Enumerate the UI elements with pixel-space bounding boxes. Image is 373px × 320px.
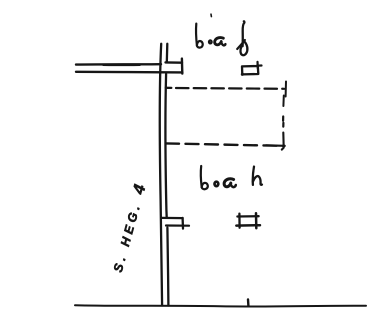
wire: lower stub end cap: [181, 218, 184, 229]
wire: upper right stub top line: [166, 61, 183, 64]
wire: horizontal wall bottom line: [76, 71, 182, 74]
node: trench top-right corner cross: [285, 82, 287, 97]
svg-text:S. HEG. 4: S. HEG. 4: [108, 179, 150, 274]
label: box h text, letter b: [201, 166, 208, 189]
wire: bottom boundary line: [75, 305, 366, 306]
wire: lower stub top line: [162, 217, 183, 220]
box h section marker rectangle left side: [238, 214, 241, 228]
label: box h text, letter x: [224, 179, 236, 187]
wire: trench right edge dash 1: [282, 96, 284, 107]
wire: horizontal wall top line ink overdraw: [103, 64, 140, 66]
node: box f marker bottom-left blob: [241, 73, 244, 76]
wire: dashed trench bottom edge: [166, 143, 285, 146]
wire: vertical wall right line upper segment: [166, 44, 169, 63]
label: box h text, letter h: [253, 167, 262, 185]
box h section marker rectangle right side: [255, 213, 258, 228]
wire: trench right edge dash 2: [282, 117, 284, 121]
label: box f text, letter f: [237, 21, 247, 55]
wire: vertical wall right line middle segment: [165, 74, 166, 217]
label: box f text, letter b: [196, 24, 203, 48]
box f section marker rectangle: [242, 66, 258, 74]
wire: dashed trench top edge: [176, 87, 284, 90]
wire: trench right edge dash 4 with hook: [282, 133, 284, 150]
label: box h text, letter o: [215, 182, 219, 186]
node: box f marker top-right tick horizontal: [257, 64, 262, 66]
wire: vertical wall left line: [160, 44, 162, 306]
node: bottom boundary tick: [247, 299, 250, 305]
wire: trench right edge dash 3: [282, 123, 284, 127]
node: dashed trench top edge wall tick: [166, 87, 172, 89]
wire: lower stub bottom line: [166, 224, 189, 226]
box h section marker rectangle top line: [237, 215, 258, 218]
label: box f text, letter o: [209, 40, 212, 43]
node: small dot above box f: [210, 14, 212, 16]
wire: vertical wall right line lower segment: [167, 228, 168, 306]
wire: upper right stub end cap: [181, 59, 184, 74]
wire: horizontal wall top line: [76, 63, 161, 66]
label: box f text, letter x: [215, 38, 226, 46]
node: box f marker top-right tick vertical: [256, 62, 259, 69]
wire: trench bottom-right corner horizontal: [266, 144, 285, 147]
box h section marker rectangle bottom line: [236, 224, 260, 227]
